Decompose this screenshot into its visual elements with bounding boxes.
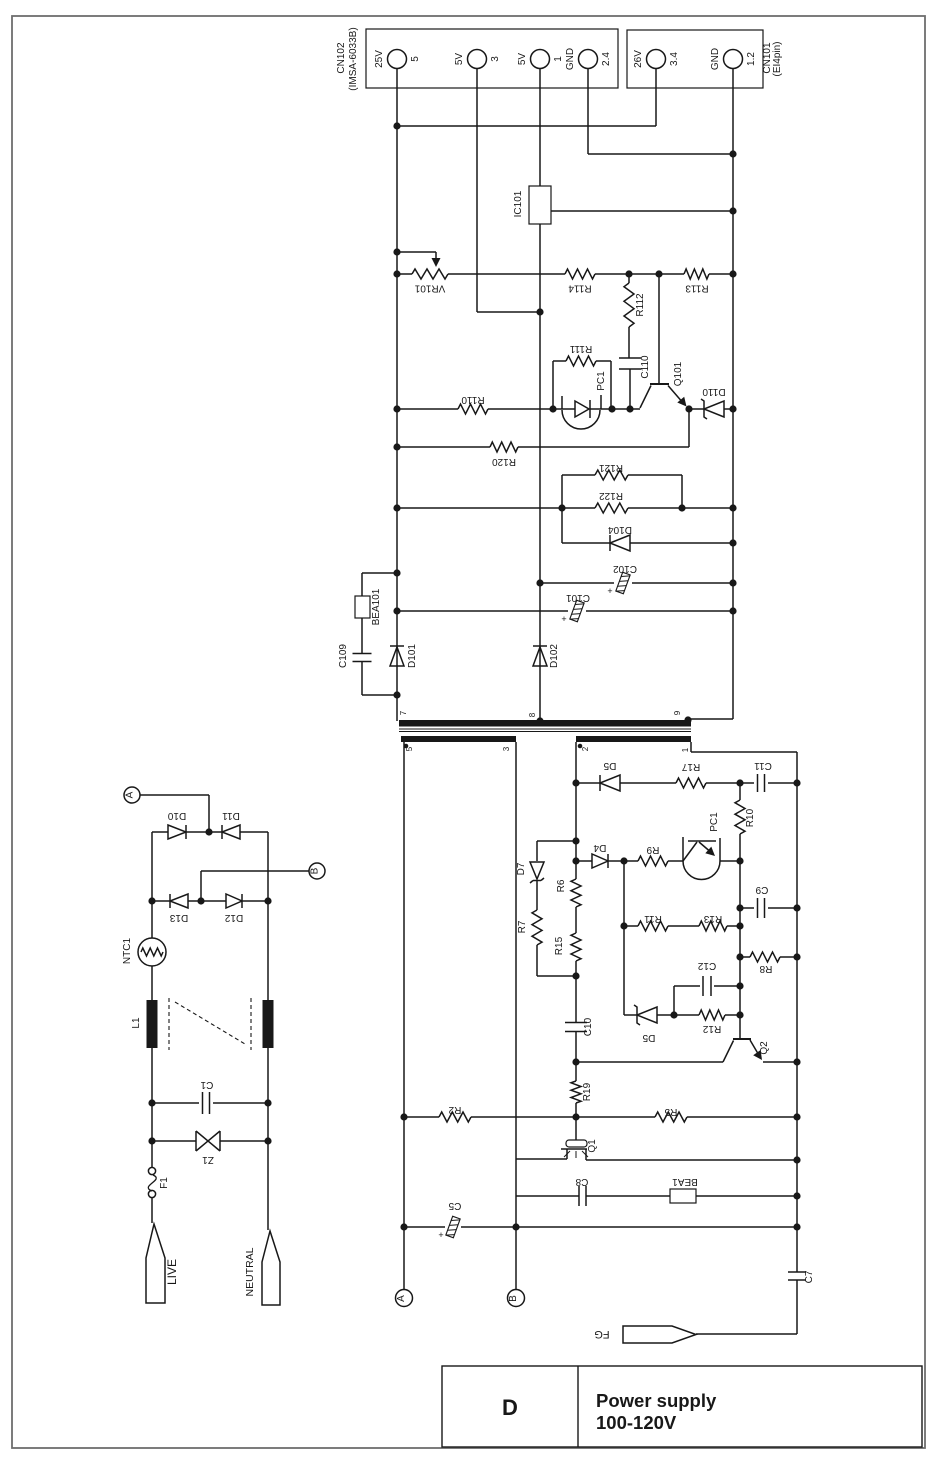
svg-text:7: 7 xyxy=(399,710,408,715)
svg-text:+: + xyxy=(607,586,612,596)
svg-text:26V: 26V xyxy=(633,50,644,68)
svg-text:D12: D12 xyxy=(224,912,243,923)
svg-text:(IMSA-6033B): (IMSA-6033B) xyxy=(348,27,359,90)
svg-text:Q101: Q101 xyxy=(673,361,684,386)
svg-text:R6: R6 xyxy=(556,879,567,892)
svg-text:9: 9 xyxy=(673,710,682,715)
svg-text:5: 5 xyxy=(410,56,421,62)
svg-text:R17: R17 xyxy=(681,761,700,772)
svg-text:5V: 5V xyxy=(517,53,528,66)
svg-text:R10: R10 xyxy=(745,808,756,827)
svg-text:R5: R5 xyxy=(664,1106,677,1117)
svg-text:+: + xyxy=(438,1230,443,1240)
svg-text:C9: C9 xyxy=(755,884,768,895)
svg-text:1: 1 xyxy=(553,56,564,62)
svg-text:D110: D110 xyxy=(702,386,726,397)
svg-text:D: D xyxy=(502,1395,518,1420)
svg-text:C7: C7 xyxy=(804,1270,815,1283)
svg-text:LIVE: LIVE xyxy=(165,1259,179,1285)
svg-text:C109: C109 xyxy=(338,644,349,668)
svg-text:Q1: Q1 xyxy=(587,1139,598,1153)
svg-text:D11: D11 xyxy=(222,810,240,821)
svg-text:R19: R19 xyxy=(582,1082,593,1101)
svg-text:3: 3 xyxy=(490,56,501,62)
svg-text:R13: R13 xyxy=(703,913,722,924)
svg-text:BEA1: BEA1 xyxy=(672,1176,698,1187)
svg-text:C8: C8 xyxy=(575,1176,588,1187)
svg-text:R120: R120 xyxy=(492,456,516,467)
svg-text:NTC1: NTC1 xyxy=(122,938,133,965)
svg-text:5V: 5V xyxy=(454,53,465,66)
svg-text:R12: R12 xyxy=(702,1023,721,1034)
svg-text:Z1: Z1 xyxy=(202,1154,214,1165)
svg-text:VR101: VR101 xyxy=(414,283,445,294)
svg-text:Q2: Q2 xyxy=(759,1041,770,1055)
svg-text:C12: C12 xyxy=(697,960,716,971)
svg-text:L1: L1 xyxy=(131,1017,142,1029)
svg-text:B: B xyxy=(310,867,321,874)
svg-text:D13: D13 xyxy=(169,912,188,923)
svg-text:C110: C110 xyxy=(640,355,651,379)
svg-text:C11: C11 xyxy=(754,760,772,771)
svg-text:D4: D4 xyxy=(593,842,606,853)
svg-text:R11: R11 xyxy=(644,913,662,924)
svg-text:Power supply: Power supply xyxy=(596,1390,717,1411)
svg-text:2: 2 xyxy=(581,746,590,751)
svg-text:CN102: CN102 xyxy=(336,42,347,74)
svg-text:C1: C1 xyxy=(200,1079,213,1090)
svg-text:3.4: 3.4 xyxy=(669,52,680,66)
svg-text:A: A xyxy=(396,1295,407,1302)
svg-text:R7: R7 xyxy=(517,920,528,933)
svg-text:2.4: 2.4 xyxy=(601,52,612,66)
svg-text:R122: R122 xyxy=(599,490,623,501)
svg-text:100-120V: 100-120V xyxy=(596,1412,677,1433)
svg-text:B: B xyxy=(508,1295,519,1302)
svg-text:D10: D10 xyxy=(167,810,186,821)
svg-text:R114: R114 xyxy=(568,283,592,294)
svg-text:R110: R110 xyxy=(461,394,485,405)
svg-text:A: A xyxy=(125,791,136,798)
svg-text:1: 1 xyxy=(681,747,690,752)
svg-text:R112: R112 xyxy=(635,293,646,317)
svg-text:(EI4pin): (EI4pin) xyxy=(772,41,783,76)
svg-text:IC101: IC101 xyxy=(513,190,524,217)
svg-text:R121: R121 xyxy=(599,462,623,473)
svg-text:+: + xyxy=(561,614,566,624)
svg-text:1.2: 1.2 xyxy=(746,52,757,66)
svg-text:NEUTRAL: NEUTRAL xyxy=(244,1247,256,1296)
svg-text:D104: D104 xyxy=(608,524,632,535)
svg-text:R9: R9 xyxy=(646,844,659,855)
svg-text:R15: R15 xyxy=(554,936,565,955)
svg-text:C101: C101 xyxy=(566,592,590,603)
svg-text:PC1: PC1 xyxy=(709,812,720,832)
svg-text:C102: C102 xyxy=(613,563,637,574)
svg-text:C10: C10 xyxy=(583,1017,594,1036)
svg-text:R111: R111 xyxy=(569,343,592,354)
svg-text:GND: GND xyxy=(565,48,576,70)
svg-text:D102: D102 xyxy=(549,644,560,668)
svg-text:GND: GND xyxy=(710,48,721,70)
svg-text:R2: R2 xyxy=(448,1104,461,1115)
svg-text:R113: R113 xyxy=(685,283,709,294)
svg-text:F1: F1 xyxy=(159,1177,170,1189)
svg-text:D101: D101 xyxy=(407,644,418,668)
svg-text:R8: R8 xyxy=(759,963,772,974)
svg-text:PC1: PC1 xyxy=(596,371,607,391)
svg-text:D5: D5 xyxy=(642,1032,655,1043)
svg-text:D5: D5 xyxy=(603,760,616,771)
svg-text:BEA101: BEA101 xyxy=(371,588,382,625)
svg-text:3: 3 xyxy=(502,746,511,751)
svg-text:FG: FG xyxy=(594,1328,609,1340)
svg-text:8: 8 xyxy=(528,712,537,717)
svg-text:D7: D7 xyxy=(516,862,527,875)
svg-text:C5: C5 xyxy=(448,1200,461,1211)
svg-text:25V: 25V xyxy=(374,50,385,68)
